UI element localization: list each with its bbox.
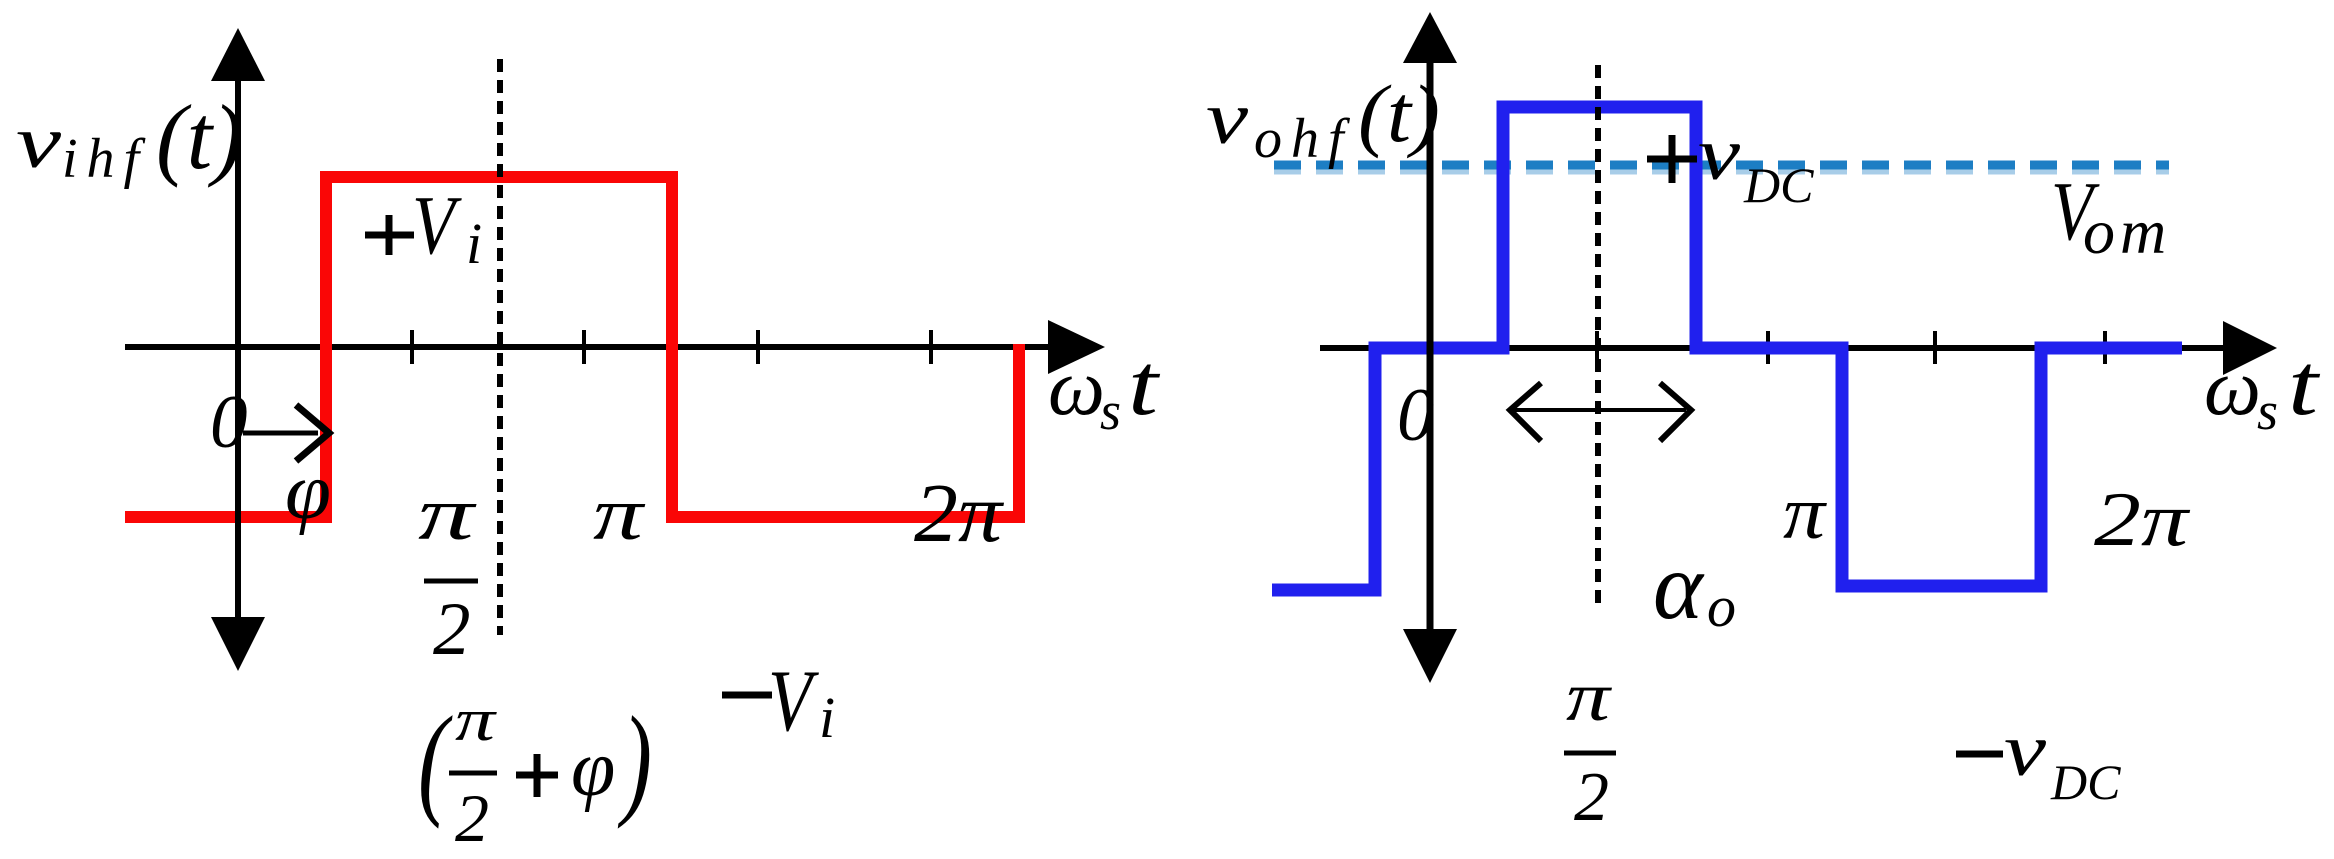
label pi/2 (left tick) — [418, 473, 478, 671]
x-axis right plot — [1320, 321, 2277, 375]
svg-text:o: o — [1707, 574, 1736, 639]
svg-text:): ) — [618, 692, 652, 830]
svg-text:φ: φ — [285, 448, 331, 536]
x-axis left plot — [125, 320, 1105, 374]
svg-text:π: π — [593, 473, 646, 556]
svg-text:2: 2 — [455, 780, 489, 856]
double-headed arrow alpha_o — [1510, 383, 1691, 441]
label (pi/2 + phi) — [418, 687, 652, 856]
svg-text:v: v — [16, 101, 62, 184]
svg-text:π: π — [1783, 472, 1828, 555]
label -V_i — [722, 653, 835, 750]
svg-text:v: v — [1698, 113, 1741, 196]
y-axis right plot — [1403, 12, 1457, 683]
ticks left x-axis — [412, 330, 931, 364]
svg-text:ω: ω — [1048, 344, 1105, 432]
label -v_DC — [1956, 709, 2121, 810]
dotted vertical line left (pi/2 + phi) — [497, 59, 503, 635]
svg-text:om: om — [2083, 196, 2171, 267]
svg-text:α: α — [1653, 533, 1705, 639]
dotted vertical line right (pi/2) — [1595, 65, 1601, 610]
svg-text:ω: ω — [2204, 344, 2261, 432]
label alpha_o — [1653, 533, 1736, 639]
svg-text:(t): (t) — [1358, 68, 1440, 159]
label v_ohf(t) — [1206, 68, 1440, 170]
svg-text:V: V — [412, 179, 462, 272]
svg-text:i: i — [819, 685, 835, 750]
svg-text:t: t — [2288, 337, 2321, 434]
svg-text:0: 0 — [1397, 374, 1435, 457]
svg-text:π: π — [1566, 659, 1612, 736]
svg-text:s: s — [2257, 381, 2278, 441]
label +v_DC — [1647, 113, 1814, 213]
svg-text:DC: DC — [1743, 157, 1814, 213]
dashed blue Vom line — [1274, 170, 2169, 175]
svg-text:s: s — [1100, 381, 1121, 441]
svg-text:2π: 2π — [914, 467, 1005, 560]
label v_ihf(t) — [16, 86, 243, 190]
svg-text:φ: φ — [571, 725, 615, 813]
svg-text:2: 2 — [1574, 759, 1609, 836]
svg-text:ihf: ihf — [62, 128, 148, 190]
svg-text:i: i — [466, 211, 482, 276]
label +V_i — [365, 179, 482, 276]
svg-text:v: v — [1206, 77, 1249, 160]
svg-text:π: π — [455, 687, 498, 753]
svg-text:DC: DC — [2050, 754, 2121, 810]
label omega_s t (right) — [2204, 337, 2321, 441]
svg-text:(t): (t) — [156, 86, 243, 188]
label V_om — [2051, 165, 2171, 267]
label omega_s t (left) — [1048, 337, 1161, 441]
red waveform v_ihf — [125, 177, 1019, 517]
y-axis left plot — [211, 28, 265, 671]
svg-text:π: π — [418, 473, 478, 556]
phase arrow 0 to phi — [243, 405, 329, 461]
svg-text:V: V — [768, 653, 820, 750]
svg-text:(: ( — [418, 692, 453, 830]
svg-text:2: 2 — [433, 588, 471, 671]
svg-text:t: t — [1128, 337, 1161, 434]
svg-text:ohf: ohf — [1254, 108, 1353, 170]
svg-text:v: v — [2004, 709, 2047, 792]
svg-text:2π: 2π — [2094, 476, 2191, 562]
svg-text:0: 0 — [210, 381, 248, 464]
label pi/2 (right) — [1564, 659, 1616, 836]
ticks right x-axis — [1597, 331, 2105, 364]
blue waveform v_ohf — [1272, 107, 2182, 590]
